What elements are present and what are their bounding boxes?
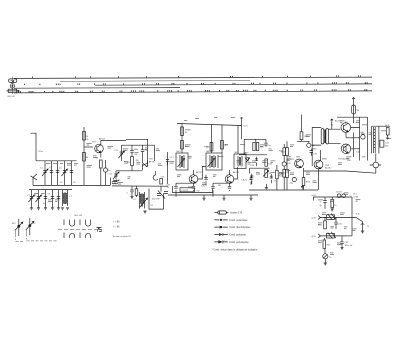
emitter resistor capacitor cluster TR4 (211, 183, 231, 197)
svg-text:CT-K21: CT-K21 (181, 190, 189, 192)
capacitor branch 5 (70, 161, 77, 186)
transistor TR7 AC128 (335, 120, 351, 133)
wire IF bottom rail (168, 194, 258, 196)
supply rail 1 (313, 196, 352, 198)
volume control chain top (301, 185, 304, 189)
dial scale line 3a (14, 87, 180, 90)
dial scale line 2 (partial) (60, 80, 250, 81)
resistor R11 (181, 141, 184, 150)
wire vertical x266 (265, 139, 267, 143)
driver transformer TR-D (312, 119, 340, 166)
earphone jack (370, 154, 382, 168)
trimmer capacitor C12 (115, 145, 125, 161)
dial pointer knob circle (10, 84, 14, 88)
position marks 75 (97, 228, 102, 232)
dial tick numbers row1 (18, 76, 368, 93)
diode pair D2 D3 (337, 194, 346, 198)
svg-text:4,5V: 4,5V (312, 195, 317, 197)
switch S1 (352, 214, 370, 234)
wire collectors to output (346, 117, 360, 161)
wire vertical feedback x147.5 (147, 139, 149, 164)
wire rail top row1 (36, 160, 77, 162)
wire rail y154.8 (239, 154, 267, 156)
bandfilter label box (173, 186, 213, 193)
wire output bottom rail (304, 171, 376, 173)
wire output verticals (367, 117, 369, 161)
wire top y139 (126, 138, 148, 140)
ground det mid (265, 184, 268, 190)
svg-text:452 kHz: 452 kHz (152, 199, 160, 201)
svg-text:f ≈ 80: f ≈ 80 (114, 221, 121, 224)
supply vertical rail x84 (83, 127, 85, 185)
electrolytic C30 10u (307, 141, 316, 147)
row2 trimmer 2 (36, 190, 42, 210)
resistor R1 (83, 132, 90, 141)
svg-text:Tension au point X1: Tension au point X1 (113, 235, 132, 238)
svg-text:OA79: OA79 (243, 151, 249, 154)
IF transformer box MF2 (206, 153, 222, 170)
svg-text:MO: MO (12, 223, 16, 225)
dial lamp pill (9, 79, 17, 83)
wire vertical x116 (115, 171, 117, 179)
capacitor C41 80n (380, 140, 390, 147)
electrolytic C10 (103, 160, 111, 185)
U wire under coil (149, 189, 164, 210)
potentiometer pair row2 (324, 214, 336, 221)
wire vertical x242 from dial (240, 118, 242, 140)
battery fuse top (352, 98, 360, 118)
dial scale line 1 (14, 77, 372, 78)
transistor TR6 AC132 (314, 160, 332, 170)
feedback chain resistor 2 (283, 166, 286, 190)
switch contact S-LW (26, 218, 57, 241)
padder resistor RP1 (135, 186, 138, 197)
antenna wire (31, 133, 37, 161)
component value label smudges (34, 117, 391, 255)
capacitor C24 (270, 174, 273, 183)
switch contact S-MO (12, 219, 23, 242)
neutralizing capacitor C21 (250, 174, 253, 185)
wire right vertical x352 (351, 197, 353, 236)
legend coil symbol (214, 211, 243, 215)
label B1 0,5A (354, 194, 359, 199)
wire vertical x222 (221, 125, 223, 153)
IF transformer box MF1 (176, 153, 188, 170)
svg-text:AF116: AF116 (149, 160, 156, 163)
svg-text:D4 D5: D4 D5 (336, 191, 343, 193)
legend polyester capacitor (214, 233, 246, 236)
wire vertical x182 (181, 124, 183, 153)
wire vertical x255.6 (255, 139, 257, 142)
svg-text:Cond. polystyrène: Cond. polystyrène (229, 241, 249, 244)
wire TR6 collector to transformer (321, 150, 323, 163)
dial scale line 4 (14, 91, 372, 93)
svg-text:4,5V: 4,5V (312, 236, 317, 238)
coupling capacitor C20 (201, 175, 208, 188)
resistor R5 (127, 157, 133, 171)
wire IF top rail (177, 124, 242, 126)
wire vertical x211.5 (211, 125, 213, 153)
svg-text:Cond. céramique: Cond. céramique (229, 219, 248, 222)
wire center tap (346, 137, 360, 139)
curl connector G (153, 171, 158, 180)
speaker coil element (374, 127, 376, 153)
wire TR1 emitter (100, 152, 102, 157)
resistor R22 (265, 159, 268, 166)
label 4,5V row3 (312, 234, 321, 238)
capacitor C14 (141, 145, 149, 163)
transistor TR8 AC128 (338, 144, 351, 161)
svg-text:PU: PU (33, 223, 36, 225)
svg-text:MO LW: MO LW (8, 96, 15, 98)
resistor R10 (181, 127, 184, 136)
feedback chain x284 resistor (283, 144, 286, 155)
resistor R13 (221, 141, 224, 150)
capacitor C31 (310, 149, 313, 156)
row2 capacitor 5 (57, 190, 60, 210)
wire TR3 collector to MF2 (198, 167, 206, 180)
thermistor circle Th (323, 248, 333, 259)
legend ceramic capacitor (214, 219, 248, 222)
capacitor on x167.5 (166, 160, 169, 166)
trimmer capacitor branch 1 (42, 161, 48, 186)
wire bottom rail osc (112, 185, 168, 187)
wire base feed (84, 146, 93, 148)
svg-text:MO–LW: MO–LW (75, 215, 83, 217)
ground g5 (249, 195, 252, 200)
transistor TR5 AC125 (288, 157, 304, 168)
capacitor C46 100n (334, 217, 342, 228)
supply rail 2 (320, 216, 353, 218)
trimmer capacitor branch 4 (62, 161, 68, 186)
IF transformer box MF3 (234, 154, 246, 169)
potentiometer R32 (286, 156, 289, 190)
small component right (160, 179, 163, 185)
svg-text:AF117: AF117 (233, 171, 240, 174)
vertical rail x167.5 (167, 152, 169, 184)
svg-text:AC132: AC132 (325, 167, 332, 170)
capacitor C47 100n 9V (340, 236, 353, 250)
svg-text:AF117: AF117 (196, 171, 203, 174)
left chain vertical x287 (286, 141, 288, 147)
svg-text:100n 9V: 100n 9V (345, 245, 353, 247)
dial left frame vertical (12, 77, 14, 95)
resistor R33 (302, 168, 305, 190)
wire segment y139 detector feed (244, 138, 266, 140)
oscillator coil L2 (111, 178, 119, 186)
transistor TR1 AF117 (92, 138, 106, 153)
antenna coil transformer L1 (61, 190, 69, 210)
svg-text:C.A.G.: C.A.G. (241, 179, 248, 182)
wire top jack rail (372, 126, 391, 153)
trimmer arrow big (140, 198, 148, 208)
svg-text:Dét: Dét (197, 189, 201, 192)
resistor R41 100k (318, 217, 326, 228)
feedback chain electrolytic (282, 155, 286, 166)
resistor R21 (256, 142, 258, 150)
ground g4 (222, 195, 225, 200)
wire vertical x238 (237, 125, 239, 154)
resistor R30 (300, 132, 303, 140)
diode D1 detector (245, 158, 250, 163)
ground g2 (202, 195, 205, 200)
capacitor C23 (255, 157, 258, 166)
transistor TR4 AF117 (225, 171, 240, 183)
svg-text:S–B: S–B (356, 214, 361, 216)
resistor TH2 (385, 125, 390, 139)
svg-text:7 Pos: 7 Pos (38, 151, 43, 153)
label 4,5V row1 (312, 195, 317, 201)
resistor R12 (210, 143, 213, 152)
wire vertical x244 (243, 139, 245, 155)
wire y170.8 (116, 170, 143, 172)
wire detector bottom rail (249, 189, 318, 191)
svg-text:bobine 175: bobine 175 (230, 211, 243, 214)
wire TR4 collector to MF3 (194, 167, 238, 179)
capacitor C25 (250, 168, 253, 185)
trimmer near x160 (157, 186, 168, 198)
capacitor C22 5n (264, 143, 271, 147)
capacitor branch 3 (56, 161, 59, 186)
resistor R23 (276, 165, 279, 190)
wire vertical x154.5 (154, 145, 156, 161)
capacitor branch 2 (49, 161, 53, 186)
row2 capacitor 4 (51, 190, 54, 210)
comb row 2 (64, 233, 91, 239)
transistor-style switch left (31, 174, 38, 186)
wire rail bottom row1 (33, 184, 110, 186)
volume potentiometer P1 (263, 169, 272, 177)
supply rail 3 (320, 235, 348, 237)
osc transformer T-OSC (140, 192, 145, 209)
dashed linkage line (58, 228, 98, 230)
wire driver emitter junction (318, 169, 320, 190)
resistor R40 (331, 197, 334, 211)
dial scale assembly (7, 76, 373, 98)
resistor R42 (323, 238, 331, 248)
ground under thermistor (324, 259, 327, 265)
transistor TR3 AF117 (188, 171, 203, 189)
svg-text:AF117: AF117 (99, 138, 106, 141)
emitter resistor capacitor cluster TR3 (167, 183, 196, 197)
legend electrolytic capacitor (214, 226, 251, 229)
svg-text:4,5V: 4,5V (312, 218, 317, 220)
wire TR1 collector (101, 141, 126, 145)
dial cursor box (8, 89, 16, 92)
resistor R2 (83, 153, 90, 162)
row2 rail (29, 189, 72, 191)
svg-text:f ≈ 96: f ≈ 96 (114, 226, 121, 229)
wire rail y168.2 (250, 167, 270, 169)
wire x352 to rail3 (347, 235, 352, 237)
svg-text:Cond. électrolytique: Cond. électrolytique (229, 226, 251, 229)
resistor R20 (253, 142, 255, 150)
capacitor C45 (320, 197, 327, 209)
electrolytic C32 (290, 177, 297, 184)
wire vertical B+ x301.5 (301, 115, 303, 132)
wire rail y145 (122, 144, 155, 146)
wire y141.3 (297, 140, 310, 142)
trimmer padder (113, 172, 119, 179)
svg-text:* Cond. venus dans le châssis: * Cond. venus dans le châssis de la plat… (212, 249, 258, 252)
padder capacitor CP1 (127, 186, 134, 199)
electrolytic C40 (360, 132, 365, 139)
comb row 1 (64, 220, 91, 227)
capacitor C13 180p (130, 145, 139, 156)
wire output top rail (337, 116, 368, 118)
dial scale line 3b (95, 84, 372, 85)
row2 trimmer 1 (29, 190, 35, 210)
row2 capacitor 3 (43, 190, 47, 210)
svg-text:0,5A: 0,5A (354, 195, 359, 198)
ground under coil (143, 211, 146, 213)
wire speaker bottom (375, 168, 377, 173)
resistor R31 (286, 148, 289, 156)
resistor R3 (99, 160, 102, 185)
potentiometer pair row3 (327, 232, 336, 239)
svg-text:Cond. polyester: Cond. polyester (229, 233, 246, 236)
legend polystyrene capacitor (214, 240, 249, 243)
label 4,5V row2 (312, 216, 321, 220)
transistor TR2 mixer (143, 161, 148, 171)
